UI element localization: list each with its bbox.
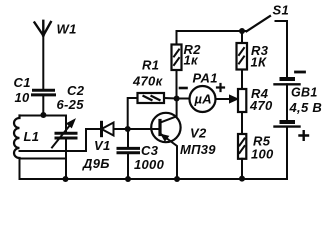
- wire coil tap to diode: [20, 129, 87, 151]
- svg-text:Д9Б: Д9Б: [82, 156, 110, 171]
- svg-text:V1: V1: [94, 138, 111, 153]
- battery GB1 cell 2: [275, 122, 300, 179]
- node antenna/tank junction: [40, 112, 46, 118]
- svg-text:C3: C3: [141, 143, 159, 158]
- svg-text:µА: µА: [194, 92, 212, 107]
- svg-text:PA1: PA1: [193, 71, 218, 86]
- svg-text:V2: V2: [190, 126, 207, 141]
- svg-text:W1: W1: [57, 22, 77, 37]
- antenna W1: [35, 21, 51, 36]
- wire tank top: [20, 115, 67, 117]
- wire top rail: [177, 30, 247, 32]
- capacitor C1: [33, 90, 55, 95]
- inductor L1: [14, 116, 19, 159]
- svg-text:10: 10: [15, 90, 31, 105]
- resistor R5: [238, 134, 246, 179]
- label plus GB1: [300, 131, 309, 140]
- svg-text:470к: 470к: [132, 74, 164, 89]
- diode V1: [86, 122, 160, 135]
- wire tank bottom L1 to C2: [20, 158, 67, 160]
- label plus PA1: [217, 84, 224, 91]
- svg-text:100: 100: [251, 147, 274, 162]
- svg-text:470: 470: [249, 98, 273, 113]
- svg-text:1000: 1000: [134, 157, 165, 172]
- wire bottom rail: [20, 178, 288, 180]
- svg-text:C2: C2: [67, 83, 85, 98]
- resistor R2: [172, 31, 182, 99]
- svg-text:C1: C1: [14, 75, 31, 90]
- svg-text:GB1: GB1: [291, 86, 318, 100]
- resistor R1: [128, 93, 177, 129]
- svg-text:4,5 В: 4,5 В: [289, 100, 323, 115]
- node R1/R2/PA1/collector junction: [174, 96, 180, 102]
- node emitter rail: [174, 176, 180, 182]
- switch S1: [247, 16, 288, 79]
- node diode/R1/C3/base junction: [125, 126, 131, 132]
- node top rail R3 junction: [239, 28, 245, 34]
- capacitor C2: [52, 116, 76, 180]
- capacitor C3: [118, 129, 139, 179]
- svg-text:1к: 1к: [184, 53, 200, 68]
- wire L1 bottom to rail: [19, 158, 21, 179]
- wire C1 to tank top: [42, 95, 44, 116]
- svg-text:1К: 1К: [251, 55, 268, 70]
- node C3 bottom rail: [125, 176, 131, 182]
- transistor V2: [151, 99, 180, 180]
- wire antenna to C1: [42, 36, 44, 90]
- resistor R4: [238, 89, 246, 134]
- label minus PA1: [180, 87, 187, 90]
- svg-text:L1: L1: [24, 129, 40, 144]
- svg-text:6-25: 6-25: [57, 97, 85, 112]
- svg-text:МП39: МП39: [180, 142, 216, 157]
- battery GB1 cell 1: [275, 79, 300, 122]
- resistor R3: [237, 31, 248, 89]
- node C2 bottom rail: [63, 176, 69, 182]
- svg-text:S1: S1: [273, 3, 290, 18]
- meter PA1: [177, 86, 238, 112]
- svg-text:R1: R1: [142, 58, 159, 73]
- node R5 bottom rail: [239, 176, 245, 182]
- label minus GB1: [296, 71, 305, 74]
